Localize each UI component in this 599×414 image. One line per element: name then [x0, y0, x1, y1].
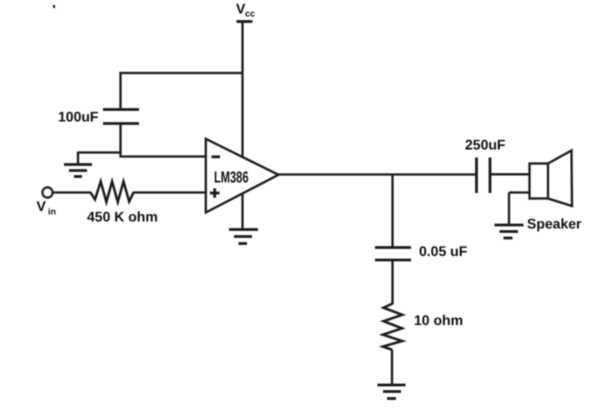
svg-text:10 ohm: 10 ohm [414, 312, 463, 328]
svg-text:V: V [37, 198, 47, 214]
svg-text:250uF: 250uF [465, 137, 506, 153]
svg-text:450 K ohm: 450 K ohm [87, 209, 158, 225]
svg-text:100uF: 100uF [58, 109, 99, 125]
svg-text:in: in [48, 207, 56, 217]
svg-text:Speaker: Speaker [527, 216, 582, 232]
svg-text:LM386: LM386 [214, 170, 249, 187]
svg-text:cc: cc [245, 9, 255, 19]
svg-text:0.05 uF: 0.05 uF [419, 243, 468, 259]
